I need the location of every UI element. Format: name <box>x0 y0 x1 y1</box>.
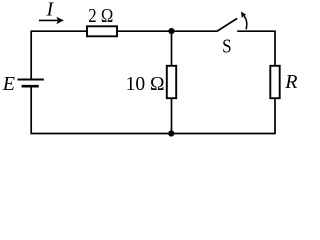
wire: 10 ohm resistor to node B <box>171 98 173 134</box>
switch S motion arrow <box>241 11 247 29</box>
wire: node B to bottom-left corner up to battery bottom plate <box>31 86 171 133</box>
resistor R1 (2 ohm) <box>87 26 117 36</box>
wire: resistor R to bottom-right corner and left to node B <box>172 98 276 134</box>
svg-text:2 Ω: 2 Ω <box>88 5 113 27</box>
resistor R <box>270 66 279 98</box>
wire: 2 ohm resistor to node A <box>117 30 172 32</box>
battery E positive (long) plate <box>18 79 44 81</box>
svg-text:E: E <box>2 73 15 95</box>
node B (bottom junction) <box>168 130 174 136</box>
wire: node A down to 10 ohm resistor <box>171 31 173 66</box>
svg-text:10 Ω: 10 Ω <box>126 73 165 95</box>
battery E negative (short thick) plate <box>22 85 39 88</box>
node A (top junction) <box>168 28 174 34</box>
wire: battery top plate up to top-left corner and right to 2 ohm resistor <box>31 31 87 79</box>
switch S blade <box>217 18 237 31</box>
current arrow I <box>39 17 64 24</box>
svg-text:R: R <box>284 71 297 93</box>
wire: switch right contact to top-right corner down to resistor R <box>237 31 275 66</box>
wire: node A to switch left contact <box>172 30 218 32</box>
svg-text:I: I <box>45 0 54 20</box>
svg-text:S: S <box>222 36 232 58</box>
resistor R2 (10 ohm) <box>167 66 176 98</box>
